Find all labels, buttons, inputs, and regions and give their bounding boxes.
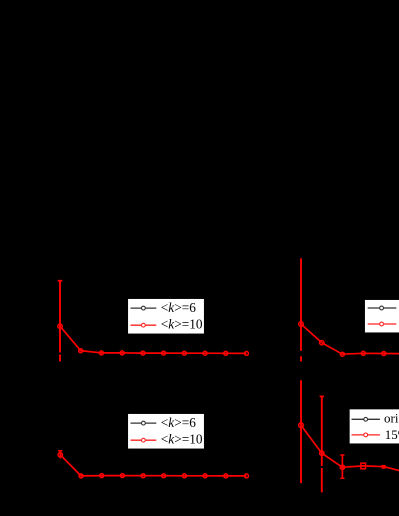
panel D (bottom-right) error bar 1	[300, 380, 302, 483]
panel A hidden black series crossing error bar	[59, 353, 62, 355]
panel D error bar 2	[320, 396, 324, 492]
panel C (bottom-left) small error bar at first point	[58, 451, 62, 459]
svg-text:original: original	[384, 411, 399, 426]
legend B entry 2	[368, 323, 397, 325]
svg-text:<k>=6: <k>=6	[161, 300, 196, 315]
svg-text:15%: 15%	[385, 427, 399, 442]
svg-text:<k>=6: <k>=6	[161, 415, 196, 430]
panel B (top-right) error bar at first point	[300, 258, 302, 361]
panel B hidden black series marker crossing error bar	[300, 351, 303, 356]
legend box D (clipped at right edge)	[349, 409, 399, 444]
panel C curve	[60, 455, 246, 476]
panel C markers	[58, 453, 248, 478]
legend A entry <k>=6	[131, 307, 157, 309]
panel D hidden black series crossing error bar 2	[321, 466, 324, 468]
legend C entry <k>=6	[131, 422, 157, 424]
legend A entry <k>=10	[131, 324, 157, 326]
panel D markers	[299, 423, 386, 470]
panel D curve 15%	[301, 425, 399, 471]
legend B entry 1	[368, 307, 397, 309]
svg-text:<k>=10: <k>=10	[161, 432, 203, 447]
panel A curve <k>=10	[60, 326, 247, 353]
legend C entry <k>=10	[131, 439, 157, 441]
legend D entry original	[352, 418, 380, 420]
legend box C	[128, 413, 205, 449]
svg-text:<k>=10: <k>=10	[161, 317, 203, 332]
panel B curve	[301, 324, 399, 354]
panel B markers	[299, 322, 386, 357]
legend box A	[128, 298, 205, 334]
legend D entry 15%	[352, 434, 380, 436]
legend box B (clipped at right edge)	[364, 299, 399, 333]
panel D error bar 3	[340, 455, 344, 478]
panel A markers	[58, 324, 249, 355]
panel A (top-left) error bar at first point	[58, 281, 63, 362]
